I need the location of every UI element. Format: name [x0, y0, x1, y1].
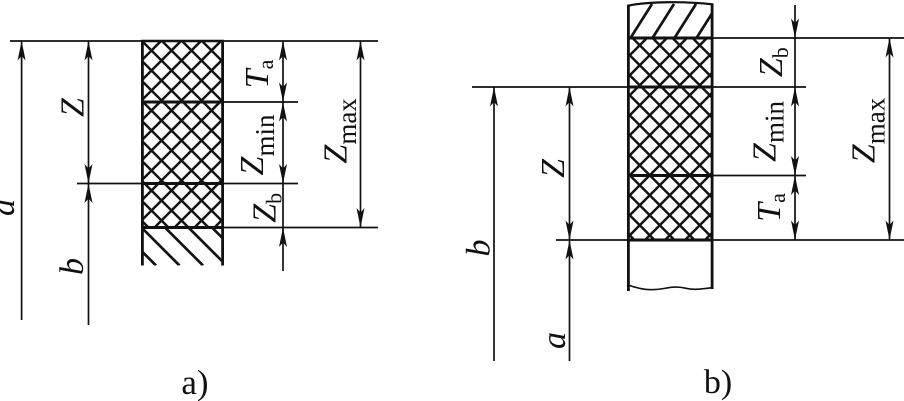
svg-text:a): a): [181, 363, 208, 401]
svg-text:Zmax: Zmax: [846, 97, 891, 163]
svg-text:Zb: Zb: [753, 47, 793, 77]
svg-text:Zmax: Zmax: [318, 98, 363, 164]
svg-text:b): b): [704, 364, 732, 401]
svg-text:a: a: [536, 332, 573, 349]
svg-text:a: a: [0, 199, 22, 216]
svg-text:Ta: Ta: [239, 59, 278, 88]
svg-text:b: b: [54, 258, 91, 275]
svg-text:Zmin: Zmin: [234, 114, 280, 175]
svg-text:Z: Z: [535, 158, 572, 178]
svg-text:Zb: Zb: [246, 193, 286, 223]
svg-text:Ta: Ta: [751, 193, 790, 222]
svg-text:b: b: [461, 240, 498, 257]
svg-text:Zmin: Zmin: [747, 101, 790, 162]
svg-text:Z: Z: [55, 97, 92, 117]
